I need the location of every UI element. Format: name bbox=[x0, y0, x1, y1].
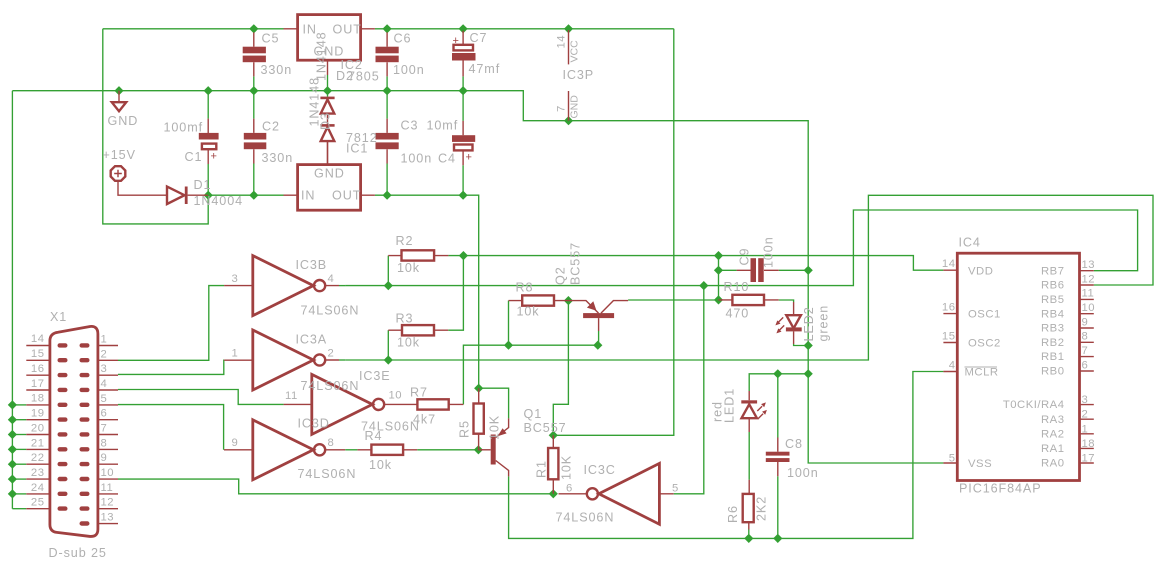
resistor R4 10k bbox=[357, 445, 417, 455]
capacitor C9 100n horizontal bbox=[737, 258, 779, 282]
wire C9 left lead bbox=[719, 269, 737, 271]
connector X1 D-sub 25 body bbox=[50, 326, 98, 536]
svg-text:green: green bbox=[817, 305, 831, 342]
wire C9 right lead bbox=[779, 269, 808, 271]
pin numbers IC4 left bbox=[942, 258, 956, 464]
resistor R3 10k bbox=[388, 325, 448, 335]
svg-text:GND: GND bbox=[569, 95, 581, 119]
svg-text:18: 18 bbox=[31, 393, 45, 405]
junction C8 top row bbox=[804, 369, 813, 378]
svg-text:15: 15 bbox=[942, 331, 956, 343]
wire dsub pin5 to IC3D input bbox=[118, 405, 224, 450]
regulator IC1 7812 box bbox=[284, 142, 375, 210]
wire net R2 row to VDD bbox=[448, 256, 943, 271]
capacitor C5 330n bbox=[243, 29, 266, 91]
diode D1 1N4004 bbox=[167, 187, 208, 205]
wire long vertical to R1 top bbox=[553, 29, 674, 436]
svg-text:24: 24 bbox=[31, 482, 45, 494]
junction IC3P gnd bbox=[564, 116, 573, 125]
junction R8 drop bbox=[504, 341, 513, 350]
resistor R10 470 bbox=[719, 295, 779, 305]
junction bus p19 bbox=[8, 415, 17, 424]
svg-text:RB2: RB2 bbox=[1041, 337, 1064, 349]
svg-text:10k: 10k bbox=[369, 458, 392, 472]
svg-text:17: 17 bbox=[31, 378, 45, 390]
svg-text:7: 7 bbox=[1082, 345, 1089, 357]
wire GND bus left bbox=[11, 91, 13, 509]
LED LED2 green bbox=[775, 302, 801, 344]
wire +15V loop via bottom bbox=[103, 29, 208, 224]
wire bus stub pin25 bbox=[12, 508, 26, 510]
junction R5 top bbox=[474, 384, 483, 393]
pin numbers X1 right bbox=[101, 334, 115, 524]
svg-text:RA1: RA1 bbox=[1041, 443, 1064, 455]
wire Q2 collector to R10 bbox=[628, 299, 718, 301]
junction Q1 base bbox=[474, 445, 483, 454]
wire dsub pin10 to R1 bottom row bbox=[118, 479, 553, 494]
svg-text:OSC2: OSC2 bbox=[968, 338, 1001, 350]
junction Q2 emitter bbox=[564, 296, 573, 305]
svg-text:R2: R2 bbox=[396, 234, 414, 248]
svg-text:5: 5 bbox=[672, 483, 679, 495]
svg-text:16: 16 bbox=[942, 302, 956, 314]
wire bus stub pin22 bbox=[12, 463, 26, 465]
connector X1 inner contacts right column bbox=[80, 343, 90, 526]
svg-text:2: 2 bbox=[1082, 409, 1089, 421]
value D2 D3 1N4148 rotated bbox=[308, 31, 333, 130]
junction C4 bottom bbox=[459, 191, 468, 200]
junction C3 rail bbox=[383, 86, 392, 95]
svg-text:11: 11 bbox=[1082, 288, 1095, 300]
svg-text:4: 4 bbox=[328, 273, 335, 285]
svg-text:20: 20 bbox=[31, 422, 45, 434]
transistor Q2 BC557 bbox=[568, 301, 628, 331]
svg-text:5: 5 bbox=[101, 393, 108, 405]
svg-text:1N4148: 1N4148 bbox=[315, 31, 329, 81]
svg-text:10: 10 bbox=[389, 390, 403, 402]
wire R3 left bend bbox=[387, 330, 389, 360]
IC4 pins right top group bbox=[1080, 271, 1094, 371]
svg-text:VCC: VCC bbox=[569, 40, 581, 63]
svg-text:D1: D1 bbox=[194, 178, 212, 192]
svg-text:IC3C: IC3C bbox=[584, 463, 616, 477]
label IC4 right pin names bbox=[1003, 265, 1065, 469]
junction bus p23 bbox=[8, 475, 17, 484]
svg-text:18: 18 bbox=[1082, 438, 1096, 450]
pin numbers IC4 right bbox=[1082, 259, 1096, 465]
capacitor C6 100n bbox=[376, 29, 399, 91]
inverter IC3A 74LS06N bbox=[224, 330, 339, 390]
svg-text:+15V: +15V bbox=[103, 148, 136, 162]
svg-text:IC1: IC1 bbox=[346, 142, 368, 156]
label IC3P pin 7 GND rotated bbox=[556, 95, 581, 119]
svg-text:100mf: 100mf bbox=[164, 121, 204, 135]
svg-text:LED2: LED2 bbox=[802, 306, 816, 341]
IC4 pins right bottom group bbox=[1080, 405, 1094, 463]
svg-text:T0CKI/RA4: T0CKI/RA4 bbox=[1003, 399, 1065, 411]
wire Q2 emitter junction down jog to R1 top bbox=[553, 301, 568, 436]
svg-text:OSC1: OSC1 bbox=[968, 309, 1001, 321]
svg-text:RB1: RB1 bbox=[1041, 351, 1064, 363]
svg-text:100n: 100n bbox=[393, 63, 425, 77]
svg-text:15: 15 bbox=[31, 348, 45, 360]
svg-text:7: 7 bbox=[556, 105, 568, 112]
svg-text:10: 10 bbox=[101, 467, 115, 479]
resistor R6 2K2 vertical bbox=[743, 480, 754, 530]
junction D2 rail bbox=[323, 86, 332, 95]
junction C1 rail bbox=[204, 86, 213, 95]
wire top VCC rail left of IC2 bbox=[103, 28, 284, 30]
svg-text:74LS06N: 74LS06N bbox=[556, 511, 615, 525]
svg-text:10k: 10k bbox=[397, 261, 420, 275]
svg-text:C5: C5 bbox=[262, 32, 280, 46]
svg-text:RB3: RB3 bbox=[1041, 323, 1064, 335]
pin numbers X1 left bbox=[31, 333, 45, 509]
svg-text:IC4: IC4 bbox=[959, 236, 981, 250]
junction R2 left bend bbox=[384, 281, 393, 290]
junction C4 rail bbox=[459, 86, 468, 95]
svg-text:9: 9 bbox=[101, 452, 108, 464]
svg-text:D3: D3 bbox=[319, 112, 333, 130]
junction bus p20 bbox=[8, 430, 17, 439]
svg-text:C7: C7 bbox=[470, 31, 488, 45]
svg-text:BC557: BC557 bbox=[569, 242, 583, 285]
junction D1 C1 bbox=[204, 191, 213, 200]
svg-text:RA2: RA2 bbox=[1041, 428, 1064, 440]
svg-text:R5: R5 bbox=[458, 420, 472, 438]
svg-text:1N4004: 1N4004 bbox=[194, 194, 244, 208]
svg-text:12: 12 bbox=[101, 497, 115, 509]
svg-text:21: 21 bbox=[31, 437, 45, 449]
svg-text:+: + bbox=[466, 152, 472, 164]
diode D3 1N4148 bbox=[320, 114, 334, 165]
svg-text:100n: 100n bbox=[787, 466, 819, 480]
svg-text:C6: C6 bbox=[394, 32, 412, 46]
junction Q2 base bbox=[593, 341, 602, 350]
svg-text:14: 14 bbox=[31, 333, 45, 345]
wire IC3B out stub green bbox=[339, 285, 345, 287]
resistor R8 10k bbox=[509, 295, 569, 305]
svg-text:R6: R6 bbox=[726, 505, 740, 523]
svg-text:C8: C8 bbox=[785, 437, 803, 451]
inverter IC3D 74LS06N bbox=[224, 420, 345, 480]
svg-text:C2: C2 bbox=[262, 120, 280, 134]
wire bus stub pin19 bbox=[12, 419, 26, 421]
wire R8 left bend down bbox=[508, 301, 510, 346]
svg-text:RB5: RB5 bbox=[1041, 294, 1064, 306]
svg-text:Q1: Q1 bbox=[524, 407, 543, 421]
svg-text:74LS06N: 74LS06N bbox=[301, 304, 360, 318]
svg-text:LED1: LED1 bbox=[723, 388, 737, 423]
ground symbol GND bbox=[112, 91, 126, 112]
svg-text:10mf: 10mf bbox=[427, 119, 459, 133]
wire R7 up to H1 row bbox=[463, 345, 597, 404]
svg-text:3: 3 bbox=[101, 363, 108, 375]
svg-text:8: 8 bbox=[101, 437, 108, 449]
transistor Q1 BC557 bbox=[478, 418, 508, 476]
junction bus p21 bbox=[8, 445, 17, 454]
svg-text:4: 4 bbox=[949, 360, 956, 372]
svg-text:6: 6 bbox=[101, 408, 108, 420]
svg-text:MCLR: MCLR bbox=[965, 367, 999, 379]
svg-text:R7: R7 bbox=[410, 386, 428, 400]
wire +12 row left of IC1 bbox=[208, 194, 283, 196]
svg-text:4k7: 4k7 bbox=[413, 413, 436, 427]
svg-text:11: 11 bbox=[285, 390, 298, 402]
svg-text:C3: C3 bbox=[401, 119, 419, 133]
svg-text:2: 2 bbox=[101, 348, 108, 360]
svg-text:470: 470 bbox=[726, 307, 750, 321]
svg-text:6: 6 bbox=[1082, 359, 1089, 371]
junction C5 top bbox=[249, 24, 258, 33]
svg-text:3: 3 bbox=[1082, 394, 1089, 406]
capacitor C7 47mf polarized bbox=[452, 29, 476, 91]
svg-text:1: 1 bbox=[232, 348, 239, 360]
diode D2 1N4148 bbox=[320, 97, 334, 114]
svg-text:10: 10 bbox=[1082, 302, 1096, 314]
svg-text:100n: 100n bbox=[401, 152, 433, 166]
junction R1 bottom bbox=[549, 489, 558, 498]
svg-text:+: + bbox=[211, 151, 217, 163]
svg-text:8: 8 bbox=[1082, 331, 1089, 343]
junction R1 top bbox=[549, 431, 558, 440]
wire R4 right to Q1 base node bbox=[417, 449, 478, 451]
svg-text:RB6: RB6 bbox=[1041, 280, 1064, 292]
wire bus stub pin21 bbox=[12, 448, 26, 450]
svg-text:C4: C4 bbox=[438, 152, 456, 166]
label IC1 pin names bbox=[301, 167, 361, 203]
resistor R1 10K vertical bbox=[548, 435, 558, 494]
svg-text:4: 4 bbox=[101, 378, 108, 390]
svg-text:RA0: RA0 bbox=[1041, 458, 1064, 470]
junction pin5 riser bbox=[699, 281, 708, 290]
svg-text:IC3B: IC3B bbox=[296, 258, 328, 272]
svg-text:14: 14 bbox=[556, 35, 568, 49]
wire dsub pin4 to IC3E input bbox=[118, 390, 284, 405]
svg-text:74LS06N: 74LS06N bbox=[298, 467, 357, 481]
svg-text:R8: R8 bbox=[516, 281, 534, 295]
junction C9 right bbox=[804, 266, 813, 275]
wire bus stub pin18 bbox=[12, 404, 26, 406]
wire C9 column verticals bbox=[718, 256, 720, 300]
IC3P power pin GND 7 bbox=[568, 91, 570, 121]
wire top VCC rail right of IC2 bbox=[375, 28, 674, 30]
wire bottom rail + MCLR bbox=[509, 372, 944, 539]
wire +12 row right of IC1 down V1 to R5 top bbox=[375, 195, 479, 388]
inverter IC3E 74LS06N bbox=[284, 374, 400, 434]
wire LED2 bottom to junction bbox=[794, 344, 809, 346]
connector X1 inner contacts left column bbox=[58, 343, 68, 511]
svg-text:11: 11 bbox=[101, 482, 114, 494]
wire IC3A out stub green bbox=[339, 359, 345, 361]
svg-text:10k: 10k bbox=[397, 336, 420, 350]
wire IC3D out to R4 bbox=[345, 449, 357, 451]
junction C7 top bbox=[459, 24, 468, 33]
svg-text:RB7: RB7 bbox=[1041, 265, 1064, 277]
svg-text:16: 16 bbox=[31, 363, 45, 375]
resistor R5 10K vertical bbox=[474, 388, 484, 450]
junction C9 left bbox=[714, 266, 723, 275]
svg-text:1: 1 bbox=[101, 334, 108, 346]
svg-text:13: 13 bbox=[1082, 259, 1096, 271]
wire R6 bottom to rail bbox=[748, 530, 750, 539]
connector X1 pins right stubs bbox=[98, 346, 118, 524]
wire dsub pin3 to IC3A input bbox=[118, 360, 224, 374]
svg-text:IC3P: IC3P bbox=[563, 68, 595, 82]
svg-text:7: 7 bbox=[101, 423, 108, 435]
junction C2 rail bbox=[249, 86, 258, 95]
wire IC3B out row + inner loop to pin12 bbox=[345, 210, 1137, 286]
capacitor C1 100mf bbox=[0, 0, 219, 195]
svg-text:2K2: 2K2 bbox=[755, 496, 769, 521]
svg-text:IC3A: IC3A bbox=[296, 333, 328, 347]
IC3P power pin VCC 14 bbox=[568, 30, 570, 64]
svg-text:GND: GND bbox=[108, 114, 139, 128]
wire R5 top node to Q1 emitter bbox=[479, 388, 509, 418]
wire bus stub pin23 bbox=[12, 478, 26, 480]
svg-text:3: 3 bbox=[232, 273, 239, 285]
svg-text:47mf: 47mf bbox=[469, 62, 501, 76]
junction C8 top bbox=[773, 369, 782, 378]
svg-text:5: 5 bbox=[949, 453, 956, 465]
capacitor C2 330n bbox=[244, 91, 266, 196]
wire GND rail + IC3P gnd + right vertical + VSS row bbox=[12, 91, 943, 463]
wire C8 top lead bbox=[777, 374, 779, 539]
svg-text:10K: 10K bbox=[488, 415, 502, 440]
wire R10 right bend to LED2 bbox=[779, 300, 794, 302]
IC4 PIC16F84AP box bbox=[957, 253, 1079, 480]
supply +15V symbol bbox=[111, 166, 167, 195]
wire IC3C pin5 up to IC3B row bbox=[674, 286, 704, 494]
IC4 pins left bbox=[943, 270, 957, 463]
LED LED1 red bbox=[741, 391, 767, 432]
regulator IC2 7805 box bbox=[284, 15, 375, 97]
inverter IC3C 74LS06N mirrored bbox=[559, 463, 674, 524]
wire IC3A out row + outer loop to pin13 bbox=[345, 195, 1153, 360]
wire R3 right up to R2 row bbox=[448, 256, 463, 331]
svg-text:D-sub 25: D-sub 25 bbox=[49, 546, 107, 560]
svg-text:IC3D: IC3D bbox=[298, 417, 330, 431]
inverter IC3B 74LS06N bbox=[224, 256, 339, 316]
svg-text:9: 9 bbox=[1082, 316, 1089, 328]
junction bus p18 bbox=[8, 400, 17, 409]
svg-text:PIC16F84AP: PIC16F84AP bbox=[959, 482, 1042, 496]
svg-text:17: 17 bbox=[1082, 453, 1096, 465]
svg-text:X1: X1 bbox=[50, 310, 67, 324]
wire R2 left bend bbox=[387, 256, 389, 286]
svg-text:12: 12 bbox=[1082, 273, 1096, 285]
svg-text:Q2: Q2 bbox=[554, 266, 568, 285]
capacitor C4 10mf polarized bbox=[452, 91, 475, 196]
junction R2 right bbox=[459, 251, 468, 260]
junction LED2 bottom bbox=[804, 341, 813, 350]
svg-text:7805: 7805 bbox=[348, 70, 380, 84]
svg-text:R10: R10 bbox=[724, 280, 750, 294]
svg-text:14: 14 bbox=[942, 258, 956, 270]
svg-text:VSS: VSS bbox=[968, 458, 992, 470]
capacitor C8 100n bbox=[766, 438, 790, 477]
svg-text:330n: 330n bbox=[261, 63, 293, 77]
svg-text:C1: C1 bbox=[185, 150, 203, 164]
svg-text:IN: IN bbox=[301, 189, 315, 203]
svg-text:9: 9 bbox=[232, 437, 239, 449]
svg-text:22: 22 bbox=[31, 452, 45, 464]
capacitor C3 100n bbox=[376, 91, 399, 196]
svg-text:C9: C9 bbox=[738, 248, 752, 266]
svg-text:6: 6 bbox=[566, 483, 573, 495]
svg-text:8: 8 bbox=[328, 437, 335, 449]
svg-text:GND: GND bbox=[314, 167, 345, 181]
svg-text:10k: 10k bbox=[517, 305, 540, 319]
svg-text:R4: R4 bbox=[365, 429, 383, 443]
svg-text:19: 19 bbox=[31, 408, 45, 420]
svg-text:OUT: OUT bbox=[333, 23, 362, 37]
svg-text:100n: 100n bbox=[762, 236, 776, 268]
wire bus stub pin20 bbox=[12, 434, 26, 436]
svg-text:2: 2 bbox=[328, 348, 335, 360]
svg-text:RB4: RB4 bbox=[1041, 308, 1064, 320]
svg-text:10K: 10K bbox=[560, 455, 574, 480]
svg-text:BC557: BC557 bbox=[524, 421, 567, 435]
junction R3 bend bbox=[384, 355, 393, 364]
svg-text:74LS06N: 74LS06N bbox=[301, 379, 360, 393]
junction R6 rail bbox=[744, 534, 753, 543]
svg-text:1: 1 bbox=[1082, 423, 1089, 435]
svg-text:R1: R1 bbox=[535, 460, 549, 478]
label IC2 pin names bbox=[303, 23, 362, 59]
resistor R2 10k bbox=[388, 250, 448, 260]
svg-text:13: 13 bbox=[101, 512, 115, 524]
svg-text:R3: R3 bbox=[396, 312, 414, 326]
wire LED1 bottom to R6 bbox=[748, 432, 750, 480]
svg-text:330n: 330n bbox=[262, 151, 294, 165]
svg-text:23: 23 bbox=[31, 467, 45, 479]
junction C6 top bbox=[383, 24, 392, 33]
junction C3 bottom bbox=[383, 191, 392, 200]
resistor R7 4k7 bbox=[400, 399, 464, 409]
svg-text:25: 25 bbox=[31, 497, 45, 509]
svg-text:VDD: VDD bbox=[968, 265, 993, 277]
junction bus p24 bbox=[8, 489, 17, 498]
junction bus p22 bbox=[8, 460, 17, 469]
svg-text:OUT: OUT bbox=[332, 189, 361, 203]
connector X1 pins left stubs bbox=[26, 346, 50, 509]
svg-text:RA3: RA3 bbox=[1041, 414, 1064, 426]
wire bus stub pin24 bbox=[12, 493, 26, 495]
label IC4 left pin names bbox=[965, 265, 1001, 470]
junction C2 bottom bbox=[249, 191, 258, 200]
junction gnd-sym rail bbox=[114, 86, 123, 95]
junction R10 left bbox=[714, 295, 723, 304]
wire LED1 top to C8 row bbox=[749, 374, 808, 391]
label IC3P pin 14 VCC rotated bbox=[556, 35, 581, 63]
junction IC3P vcc bbox=[564, 24, 573, 33]
svg-text:RB0: RB0 bbox=[1041, 366, 1064, 378]
wire Q2 base down bbox=[598, 331, 600, 345]
wire dsub pin2 to IC3B input bbox=[118, 286, 224, 361]
junction C9 top bbox=[714, 251, 723, 260]
svg-text:IC3E: IC3E bbox=[359, 369, 391, 383]
svg-text:+: + bbox=[453, 35, 459, 47]
junction C8 rail bbox=[773, 534, 782, 543]
